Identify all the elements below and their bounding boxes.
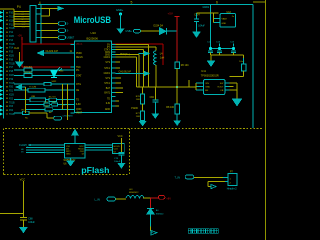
ground (118, 163, 125, 168)
svg-text:+5V: +5V (168, 12, 173, 16)
pins U11 right (225, 83, 230, 90)
svg-text:SYS: SYS (105, 62, 110, 64)
wire vertical net 4 (40, 5, 42, 44)
component X1 (14, 87, 75, 93)
wires P4 left pins (14, 11, 30, 28)
connector P7 body (228, 171, 237, 185)
terminal T2 (41, 29, 69, 33)
node label 4 (39, 1, 41, 5)
svg-text:GND: GND (222, 23, 227, 25)
svg-text:VOUT: VOUT (217, 86, 224, 88)
svg-text:+8V: +8V (166, 196, 171, 200)
power port GND1 (116, 8, 124, 33)
power arrow (72, 130, 78, 135)
capacitor C84 (150, 87, 159, 118)
svg-text:CH4: CH4 (14, 46, 20, 50)
resistor R77 (136, 104, 146, 126)
svg-text:I01B: I01B (9, 56, 14, 58)
net arrow left (16, 85, 25, 89)
node label 5 (131, 1, 133, 5)
wire (150, 214, 152, 231)
svg-text:STK1: STK1 (104, 83, 110, 85)
svg-text:pFlash: pFlash (81, 165, 109, 175)
terminal T3 (41, 36, 75, 40)
svg-text:EN: EN (205, 90, 208, 92)
net arrow PMID(D+) (120, 51, 149, 56)
label BQ25606 (87, 37, 99, 41)
capacitors C12 C13 C15 (207, 41, 236, 55)
svg-text:P16: P16 (9, 59, 14, 61)
pin labels U10 right (104, 44, 111, 111)
svg-text:+5V: +5V (18, 34, 23, 37)
wire top bus VBUS (38, 4, 253, 6)
ground (174, 114, 180, 125)
svg-text:P15: P15 (9, 52, 14, 54)
svg-text:GND+: GND+ (116, 8, 124, 12)
diode D8 (147, 208, 164, 215)
wire right vertical bus (252, 5, 254, 128)
label CH4 (14, 46, 20, 50)
wires U11 out (229, 83, 237, 99)
pin label VBUS (76, 44, 83, 46)
svg-text:QON: QON (76, 109, 82, 111)
svg-text:P19: P19 (9, 79, 14, 81)
dashed region boundary (4, 128, 263, 174)
svg-text:TD: TD (107, 98, 110, 100)
svg-text:SYS: SYS (105, 78, 110, 80)
svg-text:T01B: T01B (9, 28, 15, 30)
svg-text:T_IN: T_IN (175, 176, 181, 179)
svg-text:CH1/3.0-P: CH1/3.0-P (46, 49, 59, 53)
diode D234 (154, 25, 167, 35)
svg-text:GND: GND (66, 154, 71, 156)
label FLASH_CS (19, 144, 31, 154)
label GND1 (203, 6, 210, 9)
svg-text:BAT1: BAT1 (104, 92, 110, 95)
resistor pair (25, 101, 74, 106)
terminal CH1_N8G (47, 113, 73, 120)
svg-text:1uH: 1uH (160, 56, 165, 59)
resistor R76 (136, 87, 145, 104)
svg-text:GND1: GND1 (203, 6, 210, 9)
svg-text:PG: PG (76, 70, 80, 72)
svg-text:4: 4 (39, 1, 41, 5)
connector P4 body (30, 6, 36, 42)
svg-text:U12: U12 (227, 11, 232, 14)
ground (193, 32, 200, 38)
svg-text:MGB2012: MGB2012 (129, 192, 139, 194)
pins U12 (213, 13, 220, 23)
svg-text:U11: U11 (201, 69, 206, 73)
svg-text:R77: R77 (136, 113, 141, 115)
svg-text:U3B: U3B (31, 96, 36, 98)
inductor L4 (116, 47, 165, 87)
op-amp U10 BQ25606 body (75, 41, 112, 113)
node label 6 (216, 1, 218, 5)
svg-text:DI: DI (114, 151, 117, 153)
resistor R4x (14, 110, 47, 120)
svg-text:P4: P4 (17, 5, 21, 9)
ground (208, 61, 215, 66)
svg-text:D234 D4: D234 D4 (154, 25, 164, 28)
power VCC (0, 177, 25, 217)
svg-text:R76: R76 (136, 96, 141, 98)
ground (67, 158, 74, 166)
svg-text:6: 6 (216, 1, 218, 5)
label Header 2 (227, 188, 238, 191)
power VCC (118, 135, 123, 152)
svg-text:P13: P13 (9, 40, 14, 42)
title MicroUSB (74, 15, 112, 25)
net labels HOLD CLK DI (113, 144, 125, 154)
svg-text:STAT: STAT (76, 74, 82, 77)
svg-text:P20: P20 (9, 87, 14, 89)
svg-text:REGN: REGN (76, 57, 83, 59)
capacitor C114 (194, 13, 218, 32)
wire (116, 198, 127, 200)
net arrow CH1 (38, 49, 75, 55)
label U10 (91, 31, 97, 35)
svg-text:VBAT: VBAT (222, 18, 228, 21)
wires P4 right pins (36, 8, 41, 37)
wire red bus (22, 40, 163, 67)
svg-text:L43: L43 (129, 189, 133, 191)
svg-text:R71 4K7: R71 4K7 (24, 66, 33, 68)
svg-text:R6 104: R6 104 (181, 64, 189, 67)
terminal T_IN (175, 175, 194, 179)
svg-text:NC: NC (25, 117, 29, 119)
svg-text:104uF: 104uF (198, 25, 205, 27)
svg-text:PMID: PMID (76, 53, 82, 55)
regulator U12 body (220, 11, 236, 27)
svg-text:I01B: I01B (9, 95, 14, 97)
svg-text:P23: P23 (9, 106, 14, 108)
note charging power input (188, 229, 218, 234)
svg-text:TPS63020DSJR: TPS63020DSJR (201, 74, 219, 77)
pin labels U6 (66, 146, 84, 156)
wire net SW (116, 45, 149, 88)
flash U6 body (65, 144, 86, 158)
led D5 (51, 67, 64, 77)
svg-text:B4: B4 (156, 210, 159, 212)
svg-text:VBUS: VBUS (76, 44, 83, 46)
resistor R11 (229, 58, 245, 76)
svg-text:FLASH_CS: FLASH_CS (19, 144, 31, 147)
svg-text:I01B: I01B (9, 20, 14, 22)
label P4 (17, 5, 21, 9)
label TPS63020DSJR (201, 74, 219, 77)
title pFlash (81, 165, 109, 175)
svg-text:CLK: CLK (114, 149, 119, 151)
net arrow right (58, 7, 63, 11)
resistor R8 (166, 104, 179, 114)
svg-text:T01B: T01B (9, 114, 15, 116)
wire cap bus (210, 5, 234, 49)
svg-text:C12: C12 (207, 41, 212, 43)
svg-text:USB07: USB07 (67, 37, 75, 40)
svg-text:USB+: USB+ (126, 30, 133, 33)
wire (166, 30, 177, 32)
svg-text:3-: 3- (67, 30, 69, 33)
resistor R72 (14, 72, 75, 77)
wire (149, 198, 151, 208)
component X2 (14, 96, 75, 102)
wire yellow loop (41, 8, 50, 16)
svg-text:ILIN: ILIN (106, 103, 111, 105)
svg-text:T01B: T01B (9, 102, 15, 104)
svg-text:T01B: T01B (9, 44, 15, 46)
svg-text:R8 100: R8 100 (166, 106, 174, 109)
svg-text:BAT: BAT (106, 87, 111, 90)
svg-text:CE: CE (76, 90, 80, 92)
wire (116, 57, 137, 87)
svg-text:U10: U10 (91, 31, 97, 35)
component AC (25, 106, 74, 114)
svg-text:10R: 10R (136, 116, 140, 118)
ground (16, 52, 24, 67)
svg-text:VCC: VCC (20, 177, 26, 181)
svg-text:L_IN: L_IN (95, 198, 100, 201)
svg-text:C88: C88 (28, 219, 33, 221)
ground (233, 99, 242, 106)
wire (176, 69, 178, 104)
regulator U11 body (204, 80, 225, 95)
svg-text:P21: P21 (9, 91, 14, 93)
svg-text:P17: P17 (9, 67, 14, 69)
svg-text:R12 1K: R12 1K (49, 96, 57, 98)
pin labels U10 left (76, 53, 83, 114)
resistor SW2 (14, 81, 75, 86)
svg-text:P22: P22 (9, 98, 14, 100)
ground (20, 228, 27, 233)
terminal T1 (41, 22, 69, 26)
svg-text:Y1 12M: Y1 12M (29, 87, 36, 89)
connector J1 body (3, 10, 5, 119)
wire stubs (116, 62, 124, 106)
svg-text:MicroUSB: MicroUSB (74, 15, 112, 25)
label U11 (201, 69, 206, 73)
wire (116, 55, 140, 88)
svg-text:P18: P18 (9, 71, 14, 73)
svg-text:OTG: OTG (76, 84, 81, 86)
svg-text:I01B: I01B (9, 36, 14, 38)
pins U10 right stubs (112, 45, 116, 107)
power port +5V red (18, 34, 23, 40)
svg-text:STK1: STK1 (104, 68, 110, 70)
svg-text:U6: U6 (64, 163, 68, 165)
svg-text:GND1: GND1 (104, 73, 111, 75)
svg-text:5-: 5- (67, 23, 69, 26)
power port +5V (168, 12, 180, 62)
svg-text:HOLD: HOLD (114, 146, 120, 148)
svg-text:BQ25606: BQ25606 (87, 37, 99, 41)
svg-text:SW2: SW2 (52, 81, 58, 83)
svg-text:C13: C13 (216, 41, 221, 43)
svg-text:PGND: PGND (131, 108, 138, 110)
wire main rail (137, 80, 197, 87)
net arrow CH1/SU3-P (116, 71, 149, 76)
svg-text:Header 2: Header 2 (227, 188, 238, 191)
svg-text:P12: P12 (9, 32, 14, 34)
svg-text:C114: C114 (194, 14, 200, 16)
capacitor C78 (114, 153, 124, 164)
wire (211, 55, 244, 61)
svg-text:V0: V0 (21, 151, 24, 153)
pins U11 left (196, 83, 204, 90)
svg-text:100uF: 100uF (28, 222, 35, 224)
wire yellow verticals (25, 84, 67, 120)
svg-text:GND: GND (105, 109, 110, 111)
svg-text:VBST: VBST (76, 113, 83, 115)
terminal USB+ (126, 29, 141, 33)
wire (194, 177, 228, 179)
connector J1 pins (0, 11, 15, 116)
inductor L43 (126, 189, 150, 198)
svg-text:5: 5 (131, 1, 133, 5)
svg-text:C84: C84 (150, 97, 155, 99)
wires flash left (26, 145, 65, 153)
resistor R71 (14, 66, 75, 72)
svg-text:P10: P10 (9, 13, 14, 15)
wire yellow feed (0, 9, 14, 27)
svg-text:C15: C15 (230, 41, 235, 43)
svg-text:TNC: TNC (76, 67, 81, 69)
svg-text:TS: TS (76, 100, 79, 102)
wire to arrow (41, 7, 58, 9)
svg-text:GND1: GND1 (104, 57, 111, 59)
wire loop (208, 182, 228, 187)
pin labels U11 (205, 83, 224, 92)
svg-text:L354: L354 (59, 70, 65, 72)
svg-text:10R: 10R (136, 99, 140, 101)
svg-text:C78: C78 (114, 158, 119, 160)
svg-text:P24: P24 (9, 110, 14, 112)
svg-text:ILIM: ILIM (76, 104, 81, 106)
svg-text:P11: P11 (9, 24, 14, 26)
resistor R6 (175, 62, 189, 69)
svg-text:VCC: VCC (118, 135, 123, 138)
label W25Q16 (64, 160, 76, 165)
svg-text:GND: GND (205, 86, 210, 88)
svg-text:R72 4K7: R72 4K7 (24, 72, 33, 74)
wires flash right (85, 145, 112, 150)
pins U10 left stubs (71, 45, 75, 114)
wire net BST (116, 50, 144, 88)
svg-text:AC: AC (49, 111, 52, 114)
svg-text:I01B: I01B (9, 75, 14, 77)
capacitor C88 (20, 218, 36, 228)
wire (141, 30, 160, 32)
power +8V (150, 195, 171, 200)
label PGND (131, 108, 138, 110)
terminal L_IN (95, 197, 116, 201)
net arrow (151, 230, 158, 235)
sheet border right edge (253, 0, 266, 240)
svg-text:T01B: T01B (9, 63, 15, 65)
svg-text:SS8520: SS8520 (156, 213, 164, 215)
svg-text:VIN: VIN (205, 83, 209, 85)
net arrow (211, 184, 216, 188)
svg-text:SV: SV (107, 44, 111, 46)
svg-text:SH2: SH2 (22, 26, 26, 28)
